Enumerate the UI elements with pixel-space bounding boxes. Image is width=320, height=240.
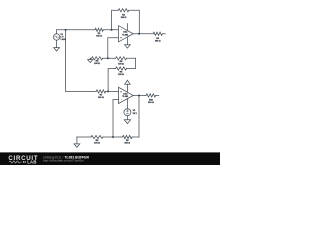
resistor R4 (92, 57, 103, 60)
voltage source V2 (124, 109, 131, 116)
footer bar (0, 152, 220, 165)
svg-text:100 Ω: 100 Ω (148, 102, 154, 104)
svg-text:100 Ω: 100 Ω (124, 143, 130, 145)
op-amp OA1 V- stub (126, 37, 128, 45)
svg-text:OA1: OA1 (123, 31, 128, 34)
wire OA2 output (133, 94, 146, 96)
wire OA1 + input to rail2 (108, 38, 119, 59)
wire OA1 output (133, 33, 153, 35)
wire rail2 (90, 57, 135, 59)
svg-text:1 kHz: 1 kHz (60, 39, 65, 41)
junction dots (65, 29, 140, 138)
wire R10 right lead (156, 94, 159, 96)
ground below V1 (54, 48, 60, 51)
wire OA2 - input down to bottom rail (113, 100, 119, 138)
svg-text:OA2: OA2 (123, 92, 128, 95)
component labels (60, 15, 160, 145)
logo diode (23, 161, 25, 163)
resistor R6 (116, 67, 127, 70)
ground bottom left (74, 137, 80, 147)
voltage source V1 (56, 30, 58, 34)
svg-text:100 Ω: 100 Ω (94, 143, 100, 145)
svg-text:TL081: TL081 (122, 96, 129, 98)
ground below V2 (124, 120, 130, 124)
ground below OA1 (125, 45, 131, 48)
wire R5 to R6 right link (127, 58, 136, 68)
svg-text:+: + (120, 91, 122, 93)
resistor R3 (153, 32, 162, 35)
svg-text:-: - (121, 99, 122, 102)
logo resistor zigzag (9, 161, 22, 163)
supply arrow above OA2 (125, 80, 130, 84)
resistor R2 (118, 9, 129, 12)
wire feedback OA2 output to bottom rail (138, 95, 140, 137)
svg-text:100 Ω: 100 Ω (118, 74, 124, 76)
wire bottom rail (77, 136, 139, 138)
wire rail1 from V1 to OA1 inverting input (57, 29, 119, 31)
ground at R4 left (88, 58, 93, 62)
svg-text:100 Ω: 100 Ω (96, 36, 102, 38)
resistor R7 (96, 90, 106, 93)
wire R3 right lead (162, 33, 165, 35)
wire vertical from node A down to R7 row (65, 30, 67, 92)
svg-text:15 V: 15 V (133, 113, 138, 115)
op-amp OA2 V- stub (126, 99, 128, 109)
svg-text:100 Ω: 100 Ω (121, 17, 127, 19)
svg-text:100 Ω: 100 Ω (155, 40, 161, 42)
svg-text:+: + (120, 38, 122, 40)
svg-text:100 Ω: 100 Ω (98, 97, 104, 99)
op-amp OA2 (119, 87, 134, 103)
svg-text:100 Ω: 100 Ω (94, 63, 100, 65)
resistor R5 (116, 57, 127, 60)
svg-text:100 Ω: 100 Ω (118, 64, 124, 66)
op-amp OA1 V+ stub (126, 24, 128, 31)
svg-text:TL081: TL081 (122, 34, 129, 36)
resistor R8 (91, 135, 103, 138)
svg-text:-: - (121, 29, 122, 32)
op-amp OA1 (119, 26, 134, 42)
wire R6 left down to OA2 + node (108, 69, 116, 92)
svg-text:http://circuitlab.com/c/7dq45x: http://circuitlab.com/c/7dq45x/ (43, 158, 84, 162)
wire R7 row (66, 90, 119, 92)
op-amp OA2 V+ stub (126, 84, 128, 92)
resistor R9 (123, 135, 133, 138)
svg-text:LAB: LAB (27, 160, 37, 165)
resistor R1 (95, 28, 103, 31)
wire feedback loop to R2 (112, 10, 140, 33)
resistor R10 (146, 94, 156, 97)
